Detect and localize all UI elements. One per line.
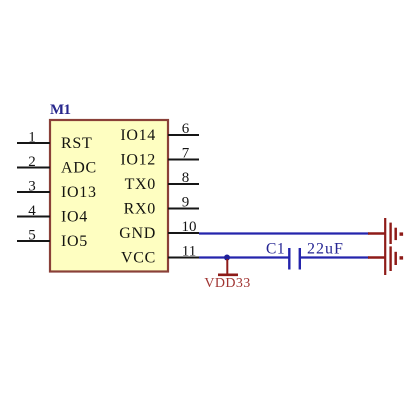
pin 6 wire [168,134,199,136]
connector J1 upper tip dash [400,232,404,235]
svg-text:5: 5 [28,228,36,244]
svg-text:IO12: IO12 [120,152,156,169]
svg-text:RST: RST [61,135,92,152]
connector J1 third bar lower segment [394,252,397,265]
connector J1 stub lower [368,256,385,258]
svg-text:VCC: VCC [121,250,156,267]
connector J1 second bar lower segment [389,246,391,271]
node junction on VCC net [224,255,230,261]
capacitor C1 plates [289,248,300,270]
wire VCC net right segment [301,256,369,258]
svg-text:TX0: TX0 [125,176,156,193]
pin 4 wire [17,216,50,218]
svg-text:8: 8 [182,170,190,186]
svg-text:9: 9 [182,195,190,211]
pin 11 wire [168,257,199,259]
svg-text:GND: GND [119,225,156,242]
wire VCC net left segment [199,256,289,258]
connector J1 second bar upper segment [389,223,391,244]
pin 9 wire [168,208,199,210]
connector J1 lower tip dash [400,256,404,259]
svg-text:7: 7 [182,146,190,162]
pin 3 wire [17,191,50,193]
svg-text:IO14: IO14 [120,127,156,144]
pin 10 wire [168,232,199,234]
svg-text:M1: M1 [50,102,70,118]
chip M1 body [50,120,168,272]
svg-text:6: 6 [182,121,190,137]
connector J1 stub upper [368,232,385,234]
pin 2 wire [17,167,50,169]
svg-text:10: 10 [182,219,197,235]
svg-text:ADC: ADC [61,160,97,177]
pin 7 wire [168,159,199,161]
svg-text:IO4: IO4 [61,209,88,226]
wire GND net horizontal [199,232,369,234]
pin 1 wire [17,142,50,144]
svg-text:1: 1 [28,130,36,146]
svg-text:VDD33: VDD33 [204,276,250,291]
svg-text:RX0: RX0 [124,201,156,218]
svg-text:4: 4 [28,203,36,219]
pin 8 wire [168,183,199,185]
svg-text:2: 2 [28,154,36,170]
svg-text:3: 3 [28,179,36,195]
svg-text:C1: C1 [266,241,285,258]
svg-text:22uF: 22uF [307,241,344,258]
svg-text:IO5: IO5 [61,233,88,250]
connector J1 long bar [384,218,386,275]
svg-text:11: 11 [182,244,196,260]
power symbol VDD33 bar [218,259,238,275]
connector J1 third bar upper segment [394,228,397,240]
pin 5 wire [17,240,50,242]
svg-text:IO13: IO13 [61,184,97,201]
